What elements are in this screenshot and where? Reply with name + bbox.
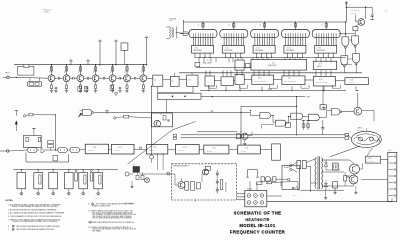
- svg-text:+5: +5: [228, 24, 230, 26]
- svg-text:IC 6: IC 6: [272, 62, 275, 64]
- svg-text:R71: R71: [80, 198, 83, 200]
- svg-text:+5: +5: [259, 24, 261, 26]
- svg-text:SEG DRIVER: SEG DRIVER: [286, 50, 294, 52]
- svg-text:THIS SYMBOL INDICATES A CHASSI: THIS SYMBOL INDICATES A CHASSIS GROUND.: [16, 228, 55, 231]
- svg-text:CONNECTS TO: CONNECTS TO: [351, 10, 360, 12]
- svg-text:Q: Q: [110, 72, 111, 74]
- svg-text:Q: Q: [49, 72, 50, 74]
- svg-text:IC2: IC2: [172, 81, 174, 83]
- svg-text:SEG DRIVER: SEG DRIVER: [317, 50, 325, 52]
- svg-text:+5: +5: [99, 39, 101, 41]
- svg-text:10- SYMBOL INDICATES A POSITIV: 10- SYMBOL INDICATES A POSITIVE SUPPLY C…: [88, 221, 135, 224]
- svg-text:IC 7: IC 7: [319, 63, 322, 65]
- svg-text:R151: R151: [354, 20, 357, 22]
- svg-text:IC 10: IC 10: [319, 79, 323, 81]
- svg-text:SCHEMATIC OF THE: SCHEMATIC OF THE: [234, 211, 282, 216]
- svg-text:IC 9: IC 9: [288, 78, 291, 80]
- svg-text:INPUT: INPUT: [5, 73, 10, 75]
- svg-text:IC 11: IC 11: [350, 79, 353, 81]
- svg-text:SEG DRIVER: SEG DRIVER: [255, 50, 263, 52]
- svg-text:SEG DRIVER: SEG DRIVER: [224, 50, 232, 52]
- svg-text:Q: Q: [125, 72, 126, 74]
- svg-text:+5: +5: [290, 24, 292, 26]
- svg-text:IC 101: IC 101: [368, 158, 372, 160]
- svg-text:BOARD CONNECTION.: BOARD CONNECTION.: [92, 204, 111, 207]
- svg-text:Q: Q: [78, 72, 79, 74]
- svg-text:IC 5: IC 5: [207, 60, 210, 62]
- svg-text:Q: Q: [64, 72, 65, 74]
- svg-text:TS1: TS1: [388, 150, 391, 152]
- svg-text:OSC: OSC: [170, 20, 173, 22]
- svg-text:NEON: NEON: [358, 128, 362, 130]
- svg-text:+5V: +5V: [385, 11, 387, 13]
- svg-text:R51: R51: [50, 198, 53, 200]
- svg-text:IC 22: IC 22: [153, 147, 156, 149]
- svg-text:HEATHKIT®: HEATHKIT®: [245, 218, 269, 222]
- svg-text:2. ALL RESISTORS ARE 10% UNLE: 2. ALL RESISTORS ARE 10% UNLESS MARKED O…: [8, 208, 57, 211]
- svg-text:R61: R61: [66, 198, 69, 200]
- svg-text:Y1: Y1: [160, 114, 162, 116]
- svg-text:MODEL IB-1101: MODEL IB-1101: [239, 223, 275, 228]
- svg-text:IC 12: IC 12: [256, 48, 260, 50]
- svg-text:+5: +5: [198, 24, 200, 26]
- svg-text:Q201: Q201: [173, 190, 176, 192]
- svg-text:+5: +5: [323, 106, 325, 108]
- svg-text:+5: +5: [349, 4, 351, 6]
- svg-text:IC 23: IC 23: [183, 147, 186, 149]
- svg-text:IC 8: IC 8: [258, 78, 261, 80]
- svg-text:IC3: IC3: [189, 80, 191, 82]
- svg-text:IC 13: IC 13: [287, 48, 291, 50]
- svg-text:RESET: RESET: [268, 89, 273, 91]
- svg-text:FREQUENCY COUNTER: FREQUENCY COUNTER: [230, 230, 286, 235]
- svg-text:Q: Q: [93, 72, 94, 74]
- svg-text:+5: +5: [115, 39, 117, 41]
- svg-text:Q: Q: [141, 72, 142, 74]
- svg-text:SEG DRIVER: SEG DRIVER: [194, 50, 202, 52]
- svg-text:R31: R31: [18, 198, 21, 200]
- svg-text:RESISTOR VALUES ARE IN OHMS (K: RESISTOR VALUES ARE IN OHMS (K=1000, M=1…: [12, 205, 58, 208]
- svg-text:LOCATION OF PARTS AND LETTERED: LOCATION OF PARTS AND LETTERED CIRCUIT B…: [12, 220, 58, 223]
- svg-text:S2: S2: [133, 165, 135, 167]
- svg-text:IC1: IC1: [154, 80, 156, 82]
- svg-text:IC 21: IC 21: [119, 147, 122, 149]
- svg-text:THE PANEL.: THE PANEL.: [92, 230, 102, 233]
- svg-text:3. ALL CAPACITOR VALUES ARE I: 3. ALL CAPACITOR VALUES ARE IN pF UNLESS…: [8, 211, 65, 214]
- svg-text:IC 10: IC 10: [195, 48, 199, 50]
- svg-text:R41: R41: [35, 198, 38, 200]
- svg-text:SOCKET: SOCKET: [247, 188, 253, 190]
- svg-text:IC 24: IC 24: [212, 148, 215, 150]
- svg-text:IC 14: IC 14: [318, 48, 322, 50]
- svg-text:ON THE IDENTIFIED BOARDS AND T: ON THE IDENTIFIED BOARDS AND THE CHASSIS: [92, 217, 132, 220]
- svg-text:SEE NOTE 4: SEE NOTE 4: [43, 9, 52, 11]
- svg-text:+5: +5: [321, 24, 323, 26]
- svg-text:+5: +5: [145, 36, 147, 38]
- svg-text:R81: R81: [95, 198, 98, 200]
- svg-text:J101 PIN 7: J101 PIN 7: [351, 12, 357, 14]
- svg-text:4. THIS SCHEMATIC IS DIVIDED: 4. THIS SCHEMATIC IS DIVIDED INTO CIRCUI…: [8, 215, 62, 218]
- svg-text:IC 11: IC 11: [225, 48, 228, 50]
- svg-text:THIS SYMBOL INDICATES A CIRCUI: THIS SYMBOL INDICATES A CIRCUIT BOARD GR…: [16, 225, 61, 228]
- svg-text:+5: +5: [87, 59, 89, 61]
- svg-text:5 MHz: 5 MHz: [306, 97, 310, 99]
- svg-text:IC 25: IC 25: [245, 148, 248, 150]
- svg-text:+: +: [331, 180, 332, 182]
- svg-text:NOTES:: NOTES:: [6, 200, 14, 202]
- svg-text:+5: +5: [70, 59, 72, 61]
- svg-text:IC 20: IC 20: [93, 147, 96, 149]
